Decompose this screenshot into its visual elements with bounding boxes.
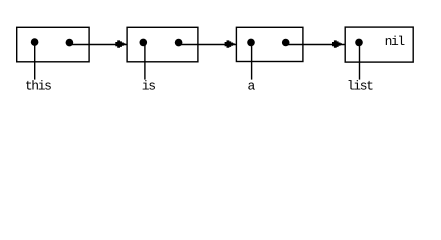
svg-text:this: this [25, 79, 51, 94]
svg-text:nil: nil [385, 34, 406, 49]
svg-text:a: a [248, 79, 256, 94]
svg-text:list: list [347, 79, 373, 94]
svg-text:is: is [142, 79, 155, 94]
